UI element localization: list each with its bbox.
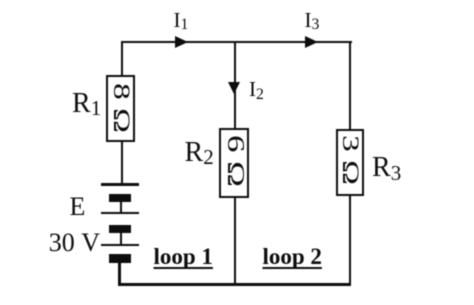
label I1 xyxy=(174,10,189,31)
label I3 xyxy=(305,10,320,31)
battery E plate + (long) cell 3 xyxy=(101,244,139,247)
wire middle vertical lower (R2 to bottom rail) xyxy=(234,198,236,285)
wire left vertical from top node to R1 xyxy=(121,41,123,76)
value label 6 ohm (rotated) xyxy=(223,120,247,201)
value label 3 ohm (rotated) xyxy=(338,119,362,200)
wire top (node between I1 and I3) xyxy=(121,41,352,43)
label loop 1 xyxy=(154,245,213,268)
value label 8 ohm (rotated) xyxy=(109,67,133,148)
resistor R2 body xyxy=(219,128,249,198)
wire bottom rail xyxy=(118,283,351,285)
battery E plate - (short thick) cell 2 xyxy=(109,225,131,234)
wire right vertical lower (R3 to bottom rail) xyxy=(349,196,351,285)
label loop 2 xyxy=(263,245,322,268)
label R3 xyxy=(372,154,401,182)
battery E plate - (short thick) cell 1 xyxy=(109,194,131,203)
battery E plate - (short thick) cell 3 xyxy=(109,254,131,263)
resistor R3 body xyxy=(336,129,364,196)
label E xyxy=(70,194,86,220)
label 30 V xyxy=(49,230,100,256)
wire battery to bottom rail xyxy=(118,263,120,286)
battery E plate + (long) cell 2 xyxy=(101,212,139,215)
wire middle vertical upper (top node to R2) xyxy=(234,41,236,128)
resistor R1 body xyxy=(106,75,135,142)
label R1 xyxy=(72,90,101,118)
label R2 xyxy=(185,139,214,167)
battery E plate + (long) cell 1 xyxy=(101,183,139,186)
label I2 xyxy=(249,79,264,100)
wire R1 to battery xyxy=(121,142,123,184)
current arrow I1 xyxy=(175,36,188,48)
current arrow I2 xyxy=(228,82,240,94)
wire right vertical upper (top node to R3) xyxy=(349,41,351,129)
wire cell1 to cell2 xyxy=(120,202,122,212)
current arrow I3 xyxy=(305,36,318,48)
wire cell2 to cell3 xyxy=(120,233,122,244)
